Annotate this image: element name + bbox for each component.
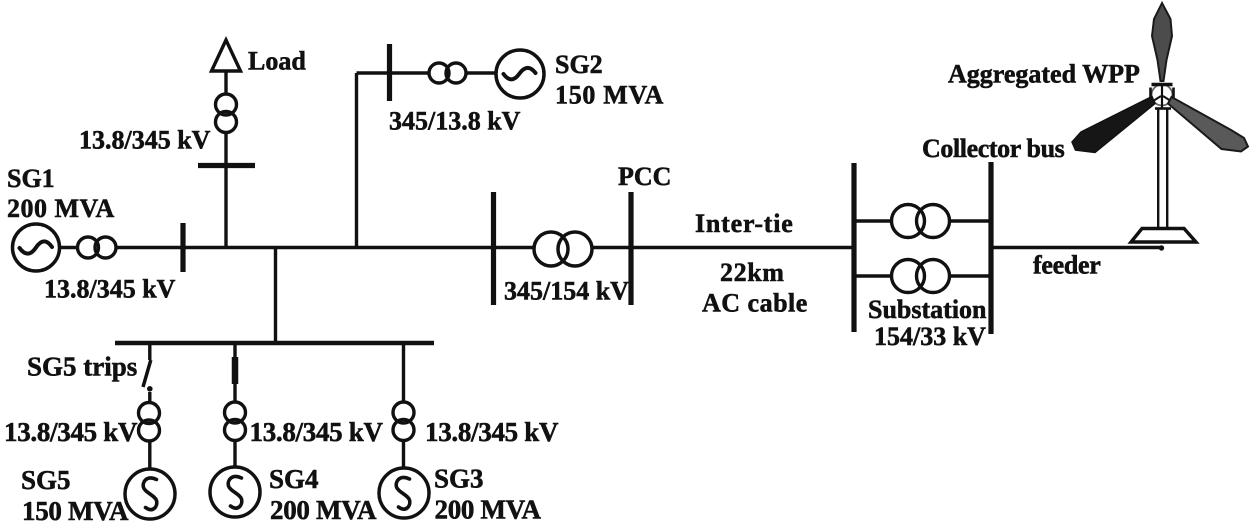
svg-text:200 MVA: 200 MVA (270, 495, 377, 525)
wire feeder line (991, 246, 1161, 249)
svg-text:Substation: Substation (868, 295, 987, 324)
bus PCC (628, 192, 633, 305)
transformer T-SG4 (225, 402, 246, 441)
svg-text:SG3: SG3 (434, 464, 484, 494)
bus tick SG1 (180, 223, 185, 272)
svg-text:SG5 trips: SG5 trips (27, 352, 137, 382)
generator SG5 (125, 469, 175, 519)
wind turbine hub (1150, 84, 1174, 109)
wire substation lower branch (854, 274, 991, 277)
svg-text:PCC: PCC (618, 162, 671, 191)
wind turbine tower (1158, 108, 1167, 230)
bus collector bar (988, 162, 993, 334)
generator SG4 (210, 467, 260, 517)
wind turbine base (1131, 229, 1196, 243)
wind turbine left blade (1072, 97, 1155, 153)
wire main 345kV line (59, 246, 854, 249)
svg-text:13.8/345 kV: 13.8/345 kV (425, 417, 559, 447)
svg-text:SG5: SG5 (21, 465, 71, 495)
transformer T-Load (216, 94, 237, 133)
wire SG3 vertical (402, 343, 405, 468)
svg-text:feeder: feeder (1033, 251, 1100, 280)
lower bus (115, 341, 434, 346)
transformer T-substation lower (892, 260, 950, 293)
wire SG5 stub (148, 343, 151, 360)
wire SG2 branch horizontal (357, 71, 498, 74)
wire SG2 branch vertical (355, 73, 358, 248)
transformer T-345/154 (534, 232, 592, 266)
svg-text:150 MVA: 150 MVA (555, 81, 664, 110)
svg-text:Aggregated WPP: Aggregated WPP (948, 60, 1140, 89)
transformer T-substation upper (892, 205, 950, 238)
generator SG1 (13, 224, 60, 271)
breaker open SG5 slash (143, 360, 151, 387)
svg-text:AC cable: AC cable (702, 289, 808, 318)
transformer T-SG2 (429, 63, 466, 83)
bus tick 345/154 left (491, 192, 496, 305)
svg-text:154/33 kV: 154/33 kV (874, 322, 986, 351)
bus load bar (198, 163, 255, 168)
breaker closed SG4 (232, 357, 239, 384)
svg-text:SG2: SG2 (555, 50, 603, 79)
wire SG4 vertical (233, 343, 236, 467)
svg-text:150 MVA: 150 MVA (22, 496, 129, 526)
bus tick SG2 (387, 44, 392, 101)
wire drop to lower bus (274, 248, 277, 344)
svg-text:Load: Load (248, 47, 306, 76)
bus substation left bar (851, 163, 856, 332)
load arrow triangle (212, 40, 241, 71)
svg-text:13.8/345 kV: 13.8/345 kV (79, 126, 211, 155)
wind turbine top blade (1152, 3, 1172, 81)
svg-text:Collector bus: Collector bus (922, 134, 1065, 163)
svg-text:200 MVA: 200 MVA (7, 194, 115, 223)
svg-text:22km: 22km (720, 258, 785, 287)
transformer T-SG5 (139, 403, 160, 442)
svg-text:13.8/345 kV: 13.8/345 kV (250, 417, 384, 447)
generator SG3 (379, 468, 429, 518)
transformer T-SG1 (78, 237, 117, 258)
wire load branch vertical (224, 70, 227, 248)
svg-text:SG4: SG4 (269, 464, 319, 494)
wire substation upper branch (854, 219, 991, 222)
svg-text:345/13.8 kV: 345/13.8 kV (389, 107, 521, 136)
transformer T-SG3 (393, 402, 414, 441)
svg-text:13.8/345 kV: 13.8/345 kV (4, 417, 138, 447)
svg-text:13.8/345 kV: 13.8/345 kV (44, 275, 176, 304)
wind turbine right blade (1168, 97, 1248, 152)
svg-text:SG1: SG1 (7, 164, 55, 193)
node SG5 breaker dot (147, 386, 153, 392)
wire SG5 vertical (148, 392, 151, 469)
generator SG2 (496, 50, 544, 98)
svg-text:345/154 kV: 345/154 kV (504, 277, 629, 306)
svg-text:Inter-tie: Inter-tie (695, 209, 794, 238)
svg-text:200 MVA: 200 MVA (435, 495, 542, 525)
